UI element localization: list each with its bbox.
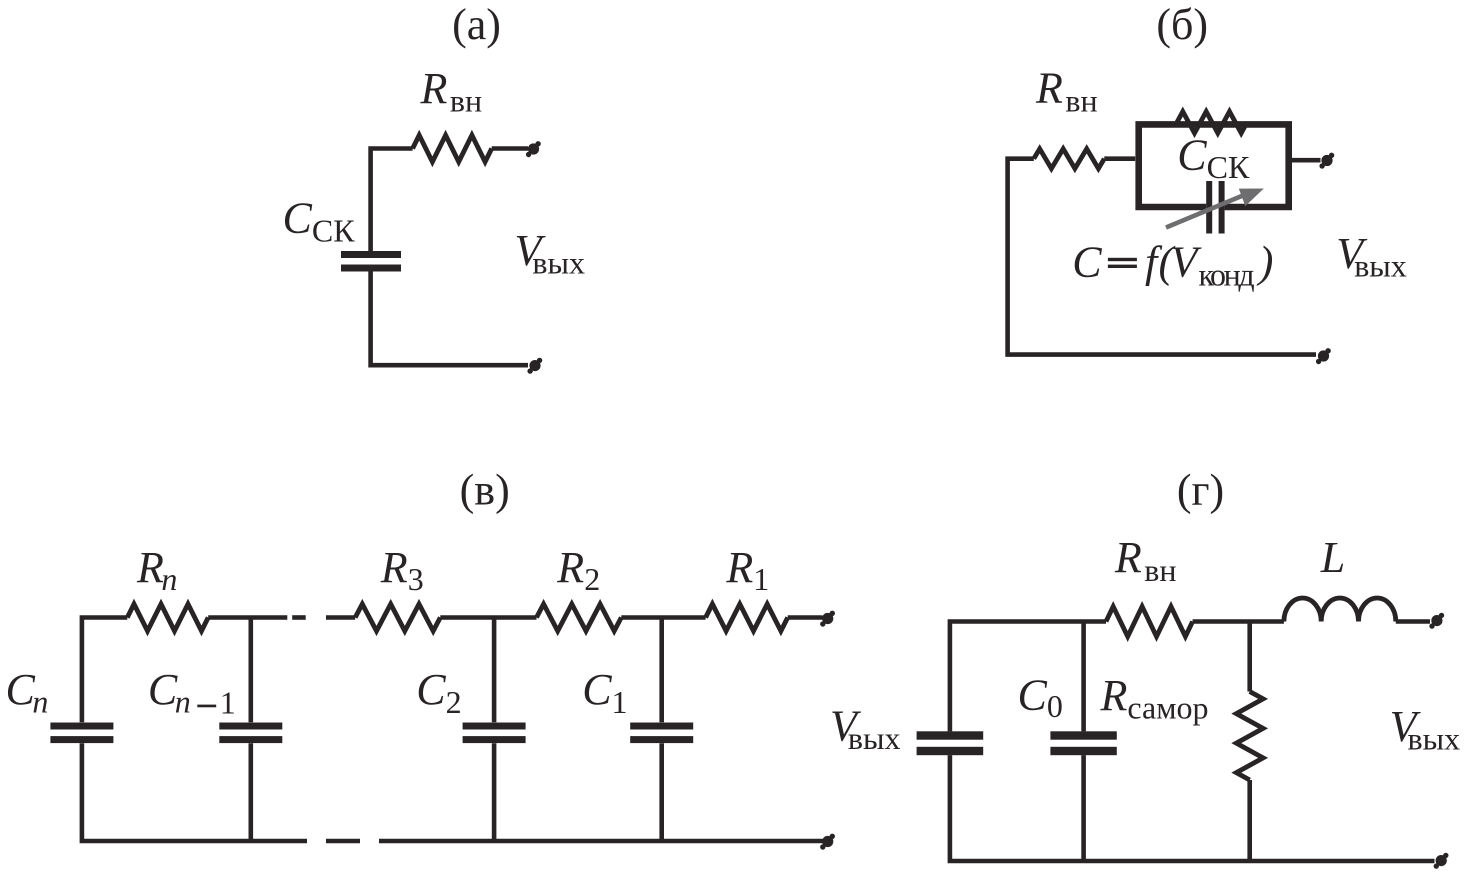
wire: R_2 to R_1 across node 1 (panel v) (621, 615, 705, 620)
arrow through variable capacitor (panel b) (1166, 195, 1244, 227)
C_0 column lower wire (panel g) (1081, 755, 1086, 861)
variable capacitor plates (panel b) (1206, 181, 1212, 234)
svg-text:Rвн: Rвн (420, 64, 483, 119)
terminal top (panel a) (526, 141, 541, 157)
svg-text:Vвых: Vвых (515, 226, 586, 280)
svg-text:Vвых: Vвых (1336, 229, 1407, 283)
terminal bottom right (panel v) (820, 834, 835, 850)
svg-text:C2: C2 (416, 665, 461, 720)
capacitor left (panel g) (917, 731, 984, 739)
svg-text:Cn: Cn (148, 665, 191, 719)
capacitor C_0 (panel g) (1050, 731, 1116, 739)
svg-text:Vвых: Vвых (830, 702, 901, 756)
box bottom edge right segment (1225, 204, 1292, 211)
resistor inside box (panel b) (1177, 112, 1247, 134)
svg-text:C0: C0 (1018, 670, 1063, 724)
dash of broken bottom rail (panel v) (326, 839, 360, 844)
resistor R_n (panel v) (127, 604, 208, 631)
wire: left L of panel b with bottom rail (1008, 159, 1316, 355)
resistor R_3 (panel v) (355, 604, 440, 631)
svg-text:CСК: CСК (1177, 131, 1250, 186)
svg-text:(а): (а) (452, 0, 501, 49)
wire: top-left corner to R_n, left column (panel v) (82, 618, 127, 723)
wire: inductor to right terminal (panel g) (1396, 619, 1430, 624)
resistor R_vn (panel g) (1106, 607, 1193, 637)
svg-text:Vвых: Vвых (1390, 702, 1461, 756)
svg-text:(в): (в) (460, 466, 510, 515)
svg-text:Rвн: Rвн (1114, 533, 1177, 588)
wire: left column lower and bottom rail (panel g) (950, 755, 1435, 861)
node 1 vertical wire lower (panel v) (659, 743, 664, 841)
bottom rail right part (panel v) (379, 839, 823, 844)
svg-text:(б): (б) (1156, 0, 1208, 49)
box around C_SK (panel b), open at bottom centre (1139, 124, 1289, 210)
svg-text:Rвн: Rвн (1035, 64, 1098, 119)
resistor R_2 (panel v) (537, 604, 622, 631)
svg-text:R2: R2 (556, 543, 600, 597)
svg-text:Rсамор: Rсамор (1100, 671, 1209, 725)
terminal top right (panel v) (820, 611, 835, 627)
capacitor C_n (panel v) (50, 723, 113, 730)
resistor R_vn (panel a) (413, 135, 492, 162)
wire: R_1 to top output terminal (panel v) (788, 615, 823, 620)
capacitor C_SK (panel a) (341, 251, 401, 258)
resistor R_1 (panel v) (706, 604, 788, 631)
terminal bottom (panel a) (527, 358, 542, 374)
wire: capacitor to bottom rail and to terminal (panel a) (371, 271, 528, 365)
node 1 vertical wire upper (panel v) (659, 618, 664, 723)
wire: R_n across node n-1 (panel v) (208, 615, 287, 620)
wire: resistor to output terminal (panel a) (492, 146, 528, 151)
terminal top right (panel g) (1429, 613, 1444, 629)
wire: box to right terminal (panel b) (1292, 158, 1321, 163)
node 2 vertical wire upper (panel v) (492, 618, 497, 723)
node n-1 vertical wire upper (panel v) (249, 618, 254, 723)
capacitor C_1 (panel v) (630, 723, 693, 730)
svg-text:(г): (г) (1177, 466, 1224, 515)
svg-text:Cn: Cn (6, 665, 49, 719)
svg-text:Rn: Rn (136, 543, 177, 597)
svg-text:Cf(Vконд): Cf(Vконд) (1072, 238, 1273, 293)
terminal bottom right (panel g) (1434, 853, 1449, 869)
resistor R_vn zigzag (panel b) (1034, 149, 1105, 169)
wire: dash to R_3 (panel v) (326, 615, 355, 620)
wire: R_vn to node and on to inductor (panel g) (1193, 619, 1284, 624)
capacitor C_n-1 (panel v) (219, 723, 282, 730)
node n-1 vertical wire lower (panel v) (249, 743, 254, 841)
svg-text:R1: R1 (725, 543, 769, 597)
node vertical wire upper (panel g) (1247, 622, 1252, 692)
terminal right (panel b) (1319, 153, 1334, 169)
equals sign of C=f(V) label (1108, 258, 1137, 261)
wire: top-left L of panel a (371, 149, 413, 253)
terminal bottom (panel b) (1316, 348, 1331, 364)
svg-text:L: L (1320, 533, 1345, 582)
svg-text:1: 1 (220, 685, 236, 721)
C_0 column upper wire (panel g) (1081, 622, 1086, 732)
node 2 vertical wire lower (panel v) (492, 743, 497, 841)
node vertical wire lower (panel g) (1247, 780, 1252, 861)
capacitor C_2 (panel v) (463, 723, 526, 730)
svg-text:CСК: CСК (283, 194, 356, 249)
wire: C_n to bottom rail, rail to dash gap (panel v) (82, 743, 307, 841)
box bottom edge left segment (1136, 204, 1207, 211)
wire: R_3 to R_2 across node 2 (panel v) (440, 615, 536, 620)
inductor L (panel g) (1284, 598, 1396, 622)
resistor R_samor (panel g) (1236, 692, 1263, 781)
svg-text:R3: R3 (380, 543, 424, 597)
wire: top rail left part with left column (panel g) (950, 622, 1106, 732)
svg-text:C1: C1 (582, 665, 627, 720)
wire: resistor to box (panel b) (1104, 156, 1135, 161)
dash of broken top rail (panel v) (292, 615, 306, 620)
